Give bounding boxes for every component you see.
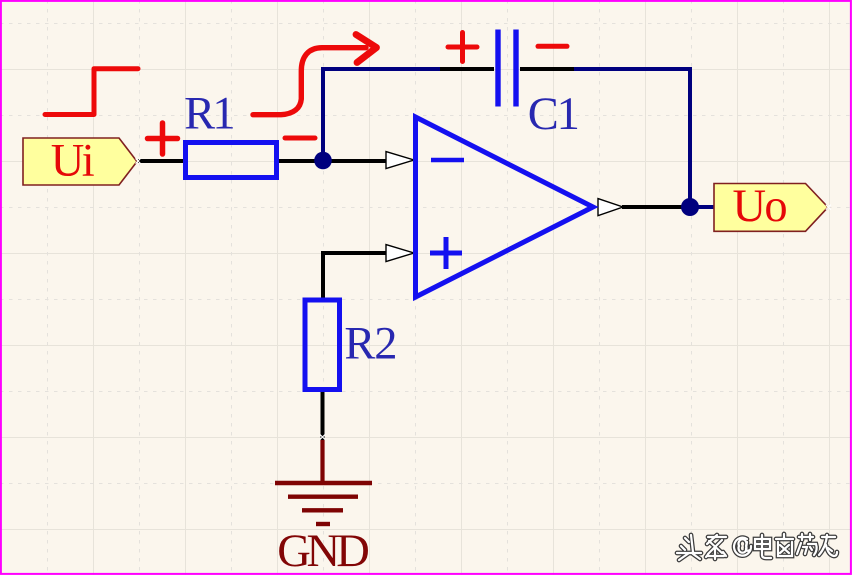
svg-text:o: o (764, 181, 787, 232)
svg-text:U: U (733, 181, 767, 232)
svg-text:C: C (528, 89, 559, 140)
svg-text:D: D (336, 526, 370, 575)
svg-text:R: R (344, 318, 375, 369)
svg-text:U: U (51, 136, 85, 187)
svg-text:1: 1 (557, 89, 580, 140)
svg-text:N: N (307, 526, 341, 575)
svg-text:i: i (82, 136, 95, 187)
svg-text:1: 1 (212, 89, 235, 140)
svg-text:R: R (184, 89, 215, 140)
svg-text:2: 2 (374, 318, 397, 369)
